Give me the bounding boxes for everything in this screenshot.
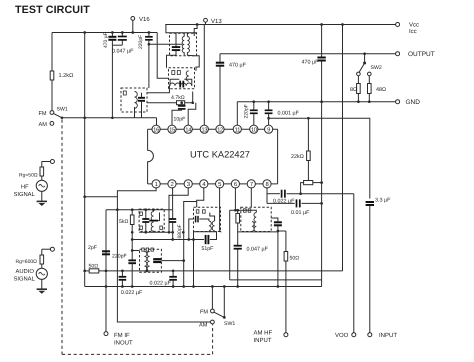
svg-text:TEST CIRCUIT: TEST CIRCUIT [15, 4, 90, 16]
terminal V16 [131, 17, 135, 21]
wire V16 rail [52, 32, 157, 34]
transformer T4 (FM DET, dashed box) [169, 68, 195, 89]
AC source HF [36, 180, 47, 191]
wire pin12 riser [219, 67, 221, 127]
svg-text:INPUT: INPUT [254, 337, 272, 344]
svg-text:22kΩ: 22kΩ [291, 154, 304, 160]
wire pin11 riser [236, 102, 238, 126]
coil T3 primary [182, 37, 184, 53]
transformer T6 (dashed box, L3) [194, 207, 221, 231]
capacitor C6 10pF [181, 103, 183, 106]
svg-text:SW2: SW2 [371, 65, 382, 71]
terminal FM IF INOUT [104, 332, 108, 336]
wire y279.9 [230, 279, 322, 281]
wire SW1 common to pin16 riser [62, 117, 157, 119]
wire A down to VOO [353, 194, 355, 333]
wire bottom pin line [148, 183, 278, 185]
svg-text:4.7kΩ: 4.7kΩ [171, 95, 185, 101]
capacitor C9 470uF (Vcc) [317, 57, 325, 59]
source HF signal [50, 160, 54, 164]
coil T3 secondary [187, 37, 189, 53]
svg-text:3.3 µF: 3.3 µF [375, 198, 391, 204]
resistor R6 (horizontal) [304, 181, 313, 185]
wire OUTPUT rail [220, 53, 396, 55]
svg-text:FM: FM [39, 111, 47, 117]
svg-text:V16: V16 [139, 16, 150, 23]
wire T6 entry [189, 219, 194, 240]
terminal Vcc/Icc [396, 23, 400, 27]
capacitor C25 in T6 [195, 216, 197, 223]
svg-text:7: 7 [250, 181, 253, 188]
capacitor C20 0.022uF (lower left) [121, 271, 123, 276]
capacitor C21 0.022uF (lower mid) [172, 271, 174, 276]
wire main lower bus (y=270.9) [85, 270, 90, 272]
terminal VOO [352, 333, 356, 337]
coil T5 secondary [147, 252, 149, 272]
svg-text:INPUT: INPUT [379, 332, 397, 339]
svg-text:AM: AM [39, 122, 48, 128]
svg-text:AM HF: AM HF [254, 330, 273, 337]
wire pin9 riser [268, 114, 270, 126]
svg-text:AM: AM [199, 323, 208, 329]
capacitor C1 470uF (top-left) [111, 33, 113, 37]
wire 0.001 junction to right [269, 118, 370, 198]
wire L4 top bus [230, 210, 257, 212]
transformer T5 (dashed box, lower) [140, 249, 162, 272]
capacitor C7 in T2 [138, 97, 145, 99]
wire L4 bottom bus [238, 231, 278, 233]
terminal GND [396, 100, 400, 104]
coil T4 winding [186, 71, 189, 81]
wire pin1 jog [117, 187, 210, 322]
wire V13 to pin 13 [204, 22, 205, 126]
svg-text:2pF: 2pF [88, 245, 97, 251]
svg-text:FM IF: FM IF [114, 332, 130, 339]
wire GND bus [237, 101, 395, 103]
wire pin4 jog [197, 187, 204, 207]
transformer T7 (dashed box, L4) [241, 207, 271, 231]
wire T1 tap [149, 220, 158, 222]
svg-text:1: 1 [155, 181, 158, 188]
wire junction to transformer T3 [194, 25, 197, 37]
capacitor C10 220pF [252, 100, 255, 103]
wire AM bus (y=286.5) [85, 286, 322, 288]
svg-text:AUDIO: AUDIO [16, 268, 35, 275]
coil T7 secondary (tall) [254, 213, 256, 232]
wire V16 branch vertical (x84.7) [84, 33, 86, 287]
wire HF feed [85, 196, 118, 198]
wire pin2 descender [172, 187, 174, 209]
svg-text:FM: FM [200, 309, 208, 315]
svg-text:OUTPUT: OUTPUT [408, 51, 435, 58]
wire V16 rail corner down to T4 [157, 33, 168, 79]
wire T6 step [210, 213, 215, 222]
svg-text:680pF: 680pF [177, 224, 183, 238]
svg-text:SIGNAL: SIGNAL [14, 276, 36, 283]
svg-text:VOO: VOO [335, 332, 349, 339]
svg-text:1.2kΩ: 1.2kΩ [59, 72, 74, 79]
pin square T2 [123, 91, 126, 95]
wire T1 bottom bus [139, 231, 173, 233]
svg-text:470 µF: 470 µF [103, 32, 109, 48]
wire dashed AM link bottom [62, 353, 213, 355]
svg-text:0.047 µF: 0.047 µF [112, 49, 134, 55]
svg-text:220pF: 220pF [138, 35, 144, 49]
pin squares T1 [140, 212, 143, 215]
svg-text:220pF: 220pF [244, 104, 250, 118]
ground HF [41, 191, 43, 201]
svg-text:10pF: 10pF [174, 117, 186, 123]
capacitor C2 0.047uF [121, 33, 123, 37]
wire 2pF line [105, 210, 107, 332]
terminal V13 [204, 18, 208, 22]
wire T5 winding bottoms [143, 270, 145, 272]
resistor R11 [237, 210, 239, 213]
svg-text:48Ω: 48Ω [376, 87, 386, 93]
capacitor C23 0.047uF (lower) [234, 245, 242, 247]
coil T2 [135, 92, 138, 109]
wire pin14 riser [188, 103, 196, 126]
wire R1 to SW1 [51, 80, 53, 110]
wire dashed AM link left [62, 120, 213, 355]
IC U1 UTC KA22427 body [148, 129, 154, 184]
wire T5 bottoms [146, 266, 148, 271]
resistor R4 48ohm [368, 76, 370, 83]
svg-text:Rg=50Ω: Rg=50Ω [19, 173, 38, 179]
capacitor C16 680pF [172, 210, 174, 219]
capacitor C13 0.01uF [267, 202, 295, 204]
svg-text:8Ω: 8Ω [350, 87, 357, 93]
svg-text:2: 2 [171, 181, 174, 188]
wire V16 drop [132, 20, 134, 32]
wire L3 descender to AM bus [193, 232, 195, 287]
wire Vcc to lower bus vertical [342, 25, 344, 271]
svg-text:INOUT: INOUT [114, 340, 133, 347]
capacitor C15 in T1 [145, 210, 147, 219]
coil T1 winding [153, 210, 155, 212]
wire T3 top bridge [166, 25, 197, 33]
wire T3 leads [183, 33, 185, 37]
wire dashed AM link right [212, 324, 214, 354]
wire cap bus down to SW1 wire [111, 45, 113, 118]
resistor R1 1.2k [50, 71, 54, 80]
svg-text:Rg=600Ω: Rg=600Ω [16, 259, 38, 265]
wire pin15 riser [172, 110, 182, 126]
svg-text:0.047 µF: 0.047 µF [247, 247, 269, 253]
svg-text:9: 9 [267, 126, 270, 133]
svg-text:HF: HF [21, 185, 29, 191]
svg-text:V13: V13 [211, 18, 222, 25]
coil T6 primary [209, 221, 211, 231]
svg-text:0.022 µF: 0.022 µF [150, 281, 172, 287]
pin squares T6 [196, 210, 199, 213]
coil T5 primary [144, 252, 146, 272]
wire SW1b common riser [223, 287, 225, 318]
pin squares T5 [142, 248, 144, 251]
wire pin5 descender [220, 187, 222, 232]
svg-text:0.022 µF: 0.022 µF [121, 290, 143, 296]
capacitor C19 in T5 [153, 258, 161, 260]
wire T2 leads [141, 101, 143, 118]
capacitor C12 0.022uF [267, 193, 280, 195]
transformer T2 (IF, dashed box left) [121, 88, 147, 112]
wire pin10 riser [253, 114, 255, 126]
capacitor C3 220pF (top) [148, 33, 150, 37]
capacitor C22 51pF on wire [132, 239, 204, 241]
coil L1 horizontal [169, 83, 191, 86]
svg-text:51pF: 51pF [202, 246, 214, 252]
capacitor C8 470uF (output) [216, 62, 224, 64]
wire Vcc rail [165, 24, 395, 26]
svg-text:SIGNAL: SIGNAL [14, 191, 36, 198]
svg-text:GND: GND [406, 99, 421, 106]
wire pin8 down [266, 187, 268, 203]
svg-text:470 µF: 470 µF [229, 63, 247, 69]
svg-text:0.01 µF: 0.01 µF [291, 210, 310, 216]
wire C3 down to IF box [148, 40, 150, 88]
transformer T1 (dashed box) [139, 209, 164, 231]
terminal INPUT (right) [368, 333, 372, 337]
wire mid vertical x229.7 [229, 210, 231, 280]
wire pin3 jog [169, 187, 188, 232]
svg-text:50Ω: 50Ω [290, 256, 300, 262]
pin squares T4 [172, 71, 175, 75]
wire FM contact riser [211, 287, 213, 310]
resistor R3 8ohm [357, 76, 359, 83]
wire SW1 lever [54, 114, 62, 118]
wire T5 tap right [161, 260, 183, 262]
coil T7 primary (short) [252, 222, 254, 232]
source AUDIO signal [50, 247, 54, 251]
svg-text:Icc: Icc [409, 28, 417, 35]
wire IF box to coil [147, 86, 169, 93]
svg-text:SW1: SW1 [57, 107, 68, 113]
wire pin7 descender [250, 187, 252, 207]
node junction on Vcc rail [196, 23, 199, 26]
switch SW2 [363, 52, 366, 55]
capacitor C4 in T3 [175, 33, 177, 47]
wire tap riser from T5 [184, 202, 197, 287]
svg-text:0.001 µF: 0.001 µF [278, 111, 300, 117]
svg-text:5kΩ: 5kΩ [119, 219, 128, 225]
svg-text:SW1: SW1 [224, 321, 235, 327]
svg-text:UTC KA22427: UTC KA22427 [190, 149, 250, 159]
wire R12 top link [278, 230, 286, 232]
ground AUDIO [41, 279, 43, 289]
svg-text:Vcc: Vcc [409, 22, 419, 29]
AC source AUDIO [36, 268, 47, 279]
wire SW1b lever [214, 312, 224, 317]
pin 16 [152, 125, 273, 188]
transformer T3 (FM OSC, dashed box) [170, 33, 197, 56]
wire left rail down to 1.2k [51, 33, 53, 72]
svg-text:470 µF: 470 µF [302, 60, 320, 66]
wire top pin line [148, 128, 278, 130]
terminal OUTPUT [396, 52, 400, 56]
wire pin6 descender [234, 187, 236, 210]
svg-text:12: 12 [217, 126, 223, 133]
capacitor C5 across L1 [170, 79, 179, 86]
svg-text:11: 11 [235, 126, 240, 133]
wire cap pair bottom bus [112, 44, 122, 46]
svg-text:220pF: 220pF [112, 254, 127, 260]
wire R2 leads [147, 102, 177, 104]
coil T6 secondary [212, 221, 214, 231]
wire 470uF branch vertical [321, 25, 323, 58]
wire pin16 riser [156, 118, 158, 126]
pin squares T7 [244, 209, 247, 212]
capacitor C24 (electrolytic by L4) [271, 218, 278, 222]
capacitor C11 0.001uF [267, 100, 270, 103]
wire T5 tap from 220pF line [132, 250, 139, 252]
wire T1 top bus [106, 209, 172, 211]
terminal AM HF INPUT [284, 333, 288, 337]
